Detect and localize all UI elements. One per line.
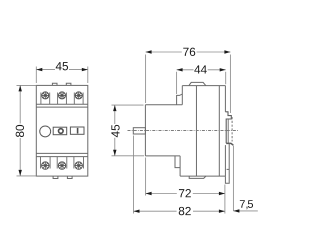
terminal screw 5L top bbox=[75, 92, 82, 99]
screw cross slots bottom row bbox=[42, 162, 49, 169]
terminal screw 1L top bbox=[42, 92, 49, 99]
label 82 bbox=[179, 207, 185, 215]
DIN rail top hook bbox=[225, 112, 231, 144]
dim 7.5: extension line right bbox=[232, 146, 234, 211]
side view bottom front horizontal bbox=[145, 155, 180, 157]
side view bottom step box bbox=[175, 156, 180, 176]
side view top terminal step bbox=[177, 94, 183, 105]
label 45 side bbox=[111, 131, 119, 137]
back face lower bbox=[224, 145, 226, 176]
dim 7.5: tail line bbox=[233, 210, 257, 212]
arrowheads dim 45 top bbox=[36, 68, 42, 71]
side view bottom edge bbox=[180, 175, 225, 177]
rotary knob circle bbox=[40, 126, 51, 137]
arrowhead dim 7.5 bbox=[233, 209, 239, 212]
dim 45 top: dimension line bbox=[36, 69, 88, 71]
screw cross slots top row bbox=[42, 92, 82, 169]
label 76 bbox=[183, 48, 188, 56]
dim 76: dimension line bbox=[146, 51, 231, 53]
terminal tunnel walls bottom row bbox=[41, 157, 84, 169]
front view lower cover parting lines bbox=[36, 153, 88, 156]
front view housing outline bbox=[36, 85, 88, 176]
dim 45 side: dimension line bbox=[114, 105, 116, 156]
arrowheads dim 76 bbox=[146, 50, 152, 53]
label 7,5 bbox=[240, 200, 245, 208]
front view top mounting tab left bbox=[52, 83, 57, 85]
dim 72: dimension line bbox=[146, 193, 225, 195]
sliding clip tongue bbox=[225, 143, 229, 183]
side view body left wall upper bbox=[181, 86, 183, 105]
DIN rail hidden edge (dashed) bbox=[231, 117, 233, 142]
dim 45 side: extension lines bbox=[112, 105, 145, 156]
front view upper cover parting lines bbox=[36, 104, 88, 107]
dim 44: extension lines bbox=[177, 72, 226, 94]
terminal tunnel walls top row bbox=[41, 93, 83, 105]
side view bottom bump bbox=[189, 176, 206, 178]
dim 80: dimension line bbox=[19, 85, 21, 175]
arrowheads dim 80 bbox=[19, 85, 22, 91]
side view front face bbox=[144, 105, 146, 156]
label 80 bbox=[16, 132, 24, 138]
front view bottom tab left bbox=[53, 176, 58, 178]
knob shaft bbox=[133, 128, 145, 134]
dim 45 top: extension lines bbox=[36, 67, 88, 84]
dim 82: dimension line bbox=[134, 210, 225, 212]
dim 82: extension line left bbox=[133, 136, 135, 214]
interior moulding line rear bbox=[218, 86, 220, 177]
label 44 bbox=[194, 65, 200, 73]
side view top front horizontal bbox=[145, 104, 182, 106]
dim 76: extension lines bbox=[146, 55, 231, 114]
arrowheads dim 45 side bbox=[113, 105, 116, 111]
terminal screw 2T bottom bbox=[42, 162, 49, 169]
centerline (dash-dot) bbox=[128, 130, 239, 132]
arrowheads dim 72 bbox=[146, 192, 152, 195]
dim 80: extension lines bbox=[17, 85, 37, 175]
label 72 bbox=[179, 189, 184, 197]
label 45 top bbox=[56, 62, 62, 70]
terminal screw 3L top bbox=[59, 92, 66, 99]
front view bottom tab right bbox=[67, 176, 72, 178]
rail catch inner edge bbox=[227, 119, 229, 143]
dim 44: dimension line bbox=[177, 69, 226, 71]
indicator window rectangle bbox=[53, 127, 66, 135]
DIN rail bottom hook bbox=[226, 143, 233, 145]
switch window rectangle bbox=[70, 127, 84, 134]
switch position bar bbox=[77, 128, 79, 134]
side view top bump bbox=[189, 82, 206, 85]
arrowheads dim 82 bbox=[134, 210, 140, 213]
side view top edge bbox=[182, 85, 225, 87]
dim 72: extension lines bbox=[146, 158, 225, 214]
terminal screw 4T bottom bbox=[58, 162, 65, 169]
trip indicator button (bold ring) bbox=[59, 129, 64, 134]
front view top mounting tab right bbox=[66, 83, 71, 85]
back face upper bbox=[224, 86, 226, 112]
terminal screw 6T bottom bbox=[75, 162, 82, 169]
arrowheads dim 44 bbox=[177, 68, 183, 71]
interior moulding line front bbox=[195, 86, 197, 177]
